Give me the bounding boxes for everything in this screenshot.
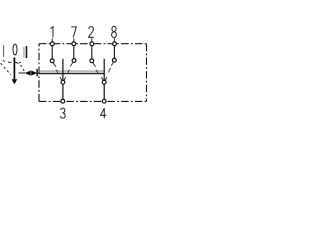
fixed contact 7 (wire from terminal 7 and contact circle) xyxy=(72,46,76,62)
position label II xyxy=(23,46,27,58)
pin 3 label xyxy=(60,108,65,118)
pin 2 label xyxy=(89,27,94,38)
travel curve dashed to position II xyxy=(16,63,24,72)
actuator bar (double line) xyxy=(37,71,104,73)
terminal 2 xyxy=(90,38,94,45)
wire pole A pivot to terminal 3 xyxy=(62,84,64,99)
travel limit dashed line to position I xyxy=(1,63,11,75)
fixed contact 2 (wire from terminal 2 and contact circle) xyxy=(90,46,94,63)
contact blade 2 xyxy=(93,63,98,73)
pole A pivot whiskers xyxy=(60,77,65,80)
terminal 8 xyxy=(113,38,117,45)
pin 1 label xyxy=(51,27,54,38)
terminal 4 xyxy=(102,99,106,103)
fixed contact 8 (wire from terminal 8 and contact circle) xyxy=(112,46,116,62)
fixed contact 1 (wire from terminal 1 and contact circle) xyxy=(50,46,54,63)
pin 8 label xyxy=(112,26,117,37)
pole A lever (common of pin 3) xyxy=(62,59,64,80)
contact blade 1 xyxy=(53,63,58,73)
travel limit tip dash xyxy=(3,60,5,61)
position label 0 xyxy=(13,44,17,55)
terminal 3 xyxy=(61,99,65,103)
wire pole B pivot to terminal 4 xyxy=(103,84,105,99)
position label I xyxy=(3,45,4,57)
pin 7 label xyxy=(71,27,76,38)
pole B pivot circle xyxy=(102,80,106,84)
pole B lever (common of pin 4) xyxy=(103,59,105,80)
actuator lever arrow (position 0, pointing down) xyxy=(12,57,18,84)
pin 4 label xyxy=(101,108,107,118)
contact blade 7 xyxy=(68,62,73,72)
pole B pivot whiskers xyxy=(102,77,107,80)
terminal 7 xyxy=(72,38,76,45)
switch S1 enclosure (dash-dot outline) xyxy=(39,44,147,102)
mechanical coupling double arrow xyxy=(19,69,38,76)
contact blade 8 xyxy=(109,62,114,72)
pole A pivot circle xyxy=(61,80,65,84)
terminal 1 xyxy=(50,38,54,45)
travel chord dashed line xyxy=(8,61,21,63)
